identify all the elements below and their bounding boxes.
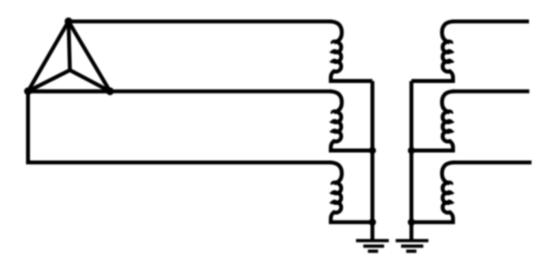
delta winding symbol (primary, triangle with center spokes)	[28, 21, 110, 91]
winding L1 (primary coil, phase A)	[330, 21, 373, 81]
ground G1 (primary neutral)	[356, 241, 389, 252]
junction dot primary bus / L2	[369, 147, 376, 154]
wire phase B (middle, delta bottom edge to winding L2)	[28, 89, 332, 93]
winding R3 (secondary coil, phase c)	[411, 162, 454, 222]
winding L3 (primary coil, phase C)	[330, 162, 373, 222]
winding R1 (secondary coil, phase a)	[411, 21, 454, 81]
wire secondary neutral bus	[409, 81, 413, 240]
junction dot secondary bus / R3	[408, 219, 415, 226]
wire secondary phase c output	[452, 160, 532, 164]
winding L2 (primary coil, phase B)	[330, 91, 373, 150]
junction dot primary bus / L3	[369, 219, 376, 226]
node dot V1 (delta apex)	[65, 18, 73, 26]
wire secondary phase b output	[452, 89, 529, 93]
junction dot secondary bus / R2	[408, 147, 415, 154]
node dot V2 (delta bottom-left)	[24, 87, 32, 95]
wire phase C (down left side then to winding L3)	[28, 91, 332, 162]
ground G2 (secondary neutral)	[396, 241, 429, 252]
wire secondary phase a output	[452, 19, 529, 23]
wire primary neutral bus	[370, 81, 374, 240]
node dot V3 (delta bottom-right)	[106, 87, 114, 95]
wire phase A (top, apex to winding L1)	[69, 19, 333, 23]
winding R2 (secondary coil, phase b)	[411, 91, 454, 150]
